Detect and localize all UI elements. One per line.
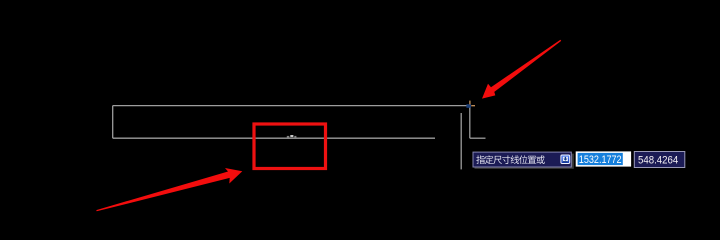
tooltip coordinate input (active, selected) bbox=[576, 151, 631, 166]
crosshair tick right (tan) bbox=[471, 105, 475, 107]
red annotation arrow (lower-left, pointing up-right) bbox=[96, 168, 242, 211]
red annotation arrow (upper-right, pointing down-left) bbox=[482, 40, 561, 99]
tooltip prompt glyph "尺" bbox=[493, 156, 502, 164]
svg-text:548.4264: 548.4264 bbox=[638, 154, 678, 166]
crosshair tick up (tan) bbox=[469, 101, 471, 105]
wire: right edge of long rectangle bbox=[469, 106, 471, 139]
svg-text:1532.1772: 1532.1772 bbox=[579, 154, 622, 166]
wire: bottom short segment right of gap bbox=[470, 137, 486, 139]
wire: top edge of long rectangle (dimension line) bbox=[113, 105, 470, 107]
tooltip prompt glyph "指" bbox=[476, 155, 485, 164]
tooltip prompt glyph "置" bbox=[528, 156, 536, 164]
wire: bottom edge of long rectangle (left part) bbox=[113, 137, 435, 139]
tooltip down-arrow icon bbox=[561, 155, 570, 164]
osnap marker: dark blue square at rectangle corner bbox=[466, 104, 471, 108]
tooltip prompt box bbox=[473, 152, 571, 167]
tooltip prompt glyph "位" bbox=[519, 155, 528, 164]
tooltip prompt glyph "定" bbox=[485, 155, 494, 164]
tooltip shadow bbox=[475, 154, 574, 169]
dimension text (tiny, unreadable) bbox=[287, 135, 297, 137]
wire: left edge of long rectangle bbox=[112, 106, 114, 139]
tooltip coordinate box (inactive) bbox=[634, 152, 685, 168]
wire: inner vertical extension line bbox=[460, 113, 462, 169]
tooltip prompt glyph "线" bbox=[511, 155, 520, 164]
tooltip prompt glyph "寸" bbox=[502, 155, 510, 164]
red highlight rectangle bbox=[254, 124, 326, 169]
tooltip prompt glyph "或" bbox=[536, 155, 544, 164]
